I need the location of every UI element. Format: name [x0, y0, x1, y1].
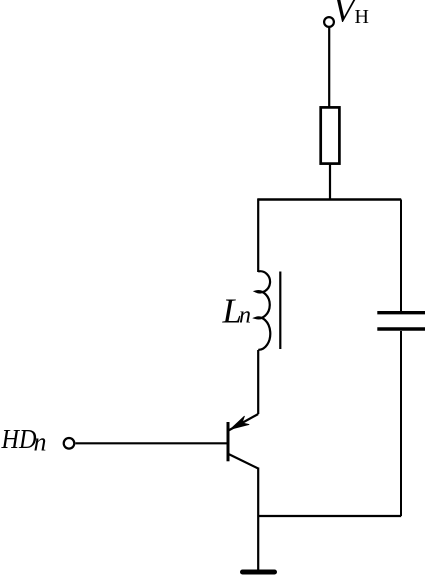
ground	[243, 570, 275, 575]
terminal HDn open circle	[64, 438, 75, 449]
inductor Ln coil	[256, 271, 271, 350]
wire right branch lower	[400, 331, 402, 516]
transistor Q emitter diagonal	[229, 414, 259, 431]
resistor R (vertical box)	[321, 107, 340, 163]
svg-text:HD: HD	[1, 424, 37, 454]
wire top rail to inductor	[257, 198, 259, 272]
capacitor C bottom plate	[377, 327, 425, 330]
wire right branch upper	[400, 200, 402, 312]
transistor Q base bar	[227, 422, 230, 461]
wire inductor to transistor emitter	[257, 350, 259, 414]
wire collector to bottom node	[257, 468, 259, 571]
transistor Q collector diagonal	[228, 454, 258, 469]
terminal VH open circle	[324, 17, 334, 27]
wire top rail	[258, 198, 401, 200]
inductor core bar	[279, 272, 281, 350]
transistor Q emitter arrowhead	[230, 416, 249, 429]
capacitor C top plate	[377, 311, 425, 314]
svg-text:H: H	[355, 6, 369, 28]
svg-text:n: n	[239, 303, 251, 329]
svg-text:n: n	[34, 428, 47, 457]
wire resistor to top rail	[329, 164, 331, 200]
wire VH to resistor	[328, 27, 330, 108]
wire bottom rail	[258, 515, 401, 517]
wire base lead	[76, 442, 229, 444]
